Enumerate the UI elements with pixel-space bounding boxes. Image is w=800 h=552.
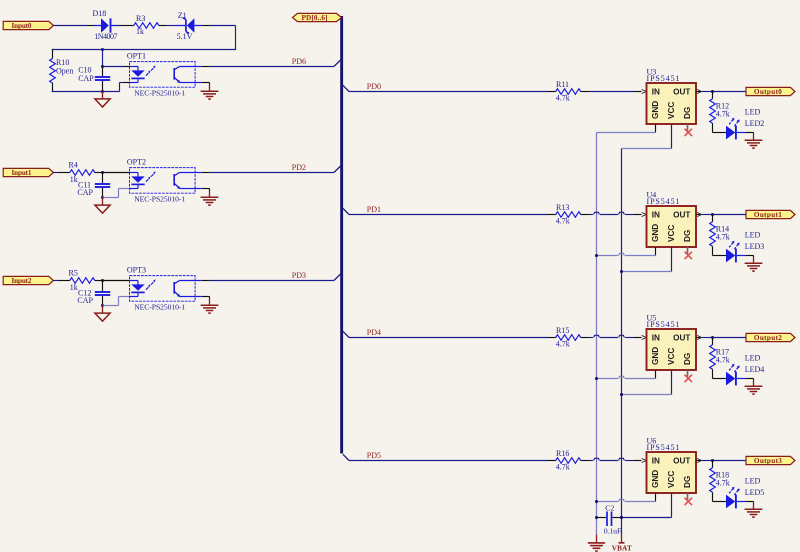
port Output2 <box>746 333 795 341</box>
svg-text:4.7k: 4.7k <box>716 233 730 242</box>
svg-text:OPT1: OPT1 <box>127 52 146 61</box>
no connect X on U5 DG <box>687 370 689 377</box>
wire U6 OUT to junction <box>696 460 700 462</box>
wire U3 VCC pin <box>671 124 673 149</box>
LED LED3 <box>713 241 754 263</box>
svg-text:LED5: LED5 <box>745 488 765 497</box>
LED LED4 <box>713 364 754 386</box>
resistor R5 1k <box>70 278 95 284</box>
junction C12 bottom <box>101 304 104 307</box>
svg-text:VCC: VCC <box>667 348 676 365</box>
svg-text:IPS5451: IPS5451 <box>647 197 680 206</box>
diode D18 1N4007 <box>94 18 119 32</box>
wire U6 GND pin <box>655 493 657 502</box>
svg-text:4.7k: 4.7k <box>716 356 730 365</box>
wire bus to R13 (PD1) <box>349 214 548 216</box>
svg-text:PD[0..6]: PD[0..6] <box>302 14 328 22</box>
port Input0 <box>3 21 53 29</box>
svg-text:4.7k: 4.7k <box>716 479 730 488</box>
svg-text:Input1: Input1 <box>12 169 32 177</box>
junction U6 OUT <box>711 459 714 462</box>
wire R5 to junction <box>95 280 103 282</box>
svg-text:Input2: Input2 <box>12 277 32 285</box>
optocoupler OPT1 NEC-PS25010-1 <box>130 62 196 88</box>
junction C11 bottom <box>101 196 104 199</box>
wire R3 to Z1 <box>159 25 166 27</box>
svg-text:OUT: OUT <box>673 457 690 466</box>
ground LED4 <box>753 379 755 381</box>
svg-text:NEC-PS25010-1: NEC-PS25010-1 <box>134 302 185 311</box>
resistor R3 <box>134 23 159 29</box>
svg-text:LED: LED <box>745 231 761 240</box>
wire U5 GND pin <box>655 370 657 379</box>
pin arrow U3 IN <box>642 89 646 93</box>
resistor R14 4.7k <box>712 215 714 222</box>
svg-text:Output3: Output3 <box>754 457 782 465</box>
wire junction to OPT3 anode <box>103 280 130 282</box>
wire OPT1 emitter to ground <box>195 82 202 84</box>
svg-text:DG: DG <box>683 353 692 365</box>
svg-text:IPS5451: IPS5451 <box>647 443 680 452</box>
svg-text:DG: DG <box>683 107 692 119</box>
wire R13 to U4 IN <box>581 214 590 216</box>
bus stub PD2 <box>334 166 341 173</box>
wire to OPT1 anode <box>103 66 124 68</box>
IC U5 IPS5451 <box>647 329 697 370</box>
svg-text:OUT: OUT <box>673 211 690 220</box>
bus stub PD3 <box>334 274 341 281</box>
bus stub PD6 <box>334 60 341 67</box>
svg-text:LED3: LED3 <box>745 242 765 251</box>
wire R16 to U6 IN <box>581 460 590 462</box>
no connect X on U6 DG <box>687 493 689 500</box>
svg-text:R13: R13 <box>556 203 569 212</box>
ground LED5 <box>753 502 755 504</box>
resistor R10 (Open) <box>52 50 54 59</box>
wire VBAT rail vertical <box>621 149 623 535</box>
svg-text:R15: R15 <box>556 326 569 335</box>
wire U5 OUT to junction <box>696 337 700 339</box>
resistor R15 4.7k <box>556 335 581 341</box>
net label tag PD[0..6] <box>293 13 342 21</box>
resistor R16 4.7k <box>556 458 581 464</box>
capacitor C2 0.1uF <box>597 517 607 519</box>
wire junction to Output1 <box>713 214 746 216</box>
wire OPT2 cathode return <box>119 188 130 190</box>
ground triangle C11 <box>102 198 104 206</box>
svg-text:GND: GND <box>651 347 660 365</box>
wire opto cathode return <box>119 83 121 92</box>
svg-text:DG: DG <box>683 476 692 488</box>
junction U5 OUT <box>711 336 714 339</box>
wire OPT1 collector to bus PD6 <box>195 66 202 68</box>
svg-text:VCC: VCC <box>667 102 676 119</box>
pin arrow U5 IN <box>642 335 646 339</box>
svg-text:1k: 1k <box>70 175 78 184</box>
resistor R18 4.7k <box>712 461 714 468</box>
svg-text:4.7k: 4.7k <box>556 339 570 348</box>
wire junction to Output2 <box>713 337 746 339</box>
capacitor C10 CAP <box>102 67 104 77</box>
svg-text:R16: R16 <box>556 449 569 458</box>
junction bottom rail <box>101 90 104 93</box>
port Output3 <box>746 456 795 464</box>
ground GND rail <box>588 542 605 544</box>
svg-text:IN: IN <box>652 211 660 220</box>
ground LED2 <box>753 133 755 135</box>
svg-text:4.7k: 4.7k <box>716 110 730 119</box>
wire junction to Output0 <box>713 91 746 93</box>
wire U5 VCC pin <box>671 370 673 395</box>
svg-text:IN: IN <box>652 457 660 466</box>
svg-text:IPS5451: IPS5451 <box>647 320 680 329</box>
wire D18 to R3 <box>119 25 134 27</box>
wire Input2 to R5 <box>53 280 58 282</box>
junction VBAT rail U5 <box>620 393 623 396</box>
pin arrow U6 IN <box>642 458 646 462</box>
wire junction to Output3 <box>713 460 746 462</box>
svg-text:VBAT: VBAT <box>612 544 632 552</box>
port Output1 <box>746 210 795 218</box>
svg-text:R3: R3 <box>136 14 145 23</box>
no connect X on U3 DG <box>687 124 689 131</box>
svg-text:CAP: CAP <box>77 188 93 197</box>
svg-text:R5: R5 <box>69 269 78 278</box>
wire U3 GND pin <box>655 124 657 133</box>
svg-text:PD6: PD6 <box>292 57 306 66</box>
wire OPT3 cathode return <box>119 296 130 298</box>
capacitor C12 CAP <box>102 281 104 292</box>
svg-text:Open: Open <box>56 66 73 75</box>
wire Z1 to corner <box>201 25 209 27</box>
junction VBAT rail U4 <box>620 270 623 273</box>
svg-text:OUT: OUT <box>673 334 690 343</box>
svg-text:GND: GND <box>651 224 660 242</box>
wire bus to R16 (PD5) <box>349 460 548 462</box>
svg-text:Input0: Input0 <box>12 22 32 30</box>
svg-text:4.7k: 4.7k <box>556 216 570 225</box>
svg-text:IN: IN <box>652 88 660 97</box>
wire R4 to junction <box>95 172 103 174</box>
wire C10 column upper <box>102 50 104 67</box>
wire Input0 to D18 <box>53 25 87 27</box>
port Input1 <box>3 168 53 176</box>
power port VBAT <box>621 535 623 543</box>
svg-text:PD4: PD4 <box>367 328 381 337</box>
IC U6 IPS5451 <box>647 452 697 493</box>
wire bottom rail <box>52 91 120 93</box>
no connect X on U4 DG <box>687 247 689 254</box>
bus stub PD1 <box>343 208 349 214</box>
svg-text:NEC-PS25010-1: NEC-PS25010-1 <box>134 194 185 203</box>
wire top rail <box>52 49 236 51</box>
resistor R17 4.7k <box>712 338 714 345</box>
wire Input1 to R4 <box>53 172 58 174</box>
wire U4 OUT to junction <box>696 214 700 216</box>
junction C12 top <box>101 279 104 282</box>
resistor R13 4.7k <box>556 212 581 218</box>
svg-text:OPT3: OPT3 <box>127 266 146 275</box>
ground OPT1 emitter <box>201 90 219 92</box>
wire bus to R11 (PD0) <box>349 91 548 93</box>
svg-text:PD3: PD3 <box>292 271 306 280</box>
svg-text:PD5: PD5 <box>367 451 381 460</box>
optocoupler OPT2 NEC-PS25010-1 <box>130 168 196 194</box>
pin arrow U4 IN <box>642 212 646 216</box>
resistor R11 4.7k <box>556 89 581 95</box>
svg-text:R4: R4 <box>69 161 78 170</box>
junction on top rail <box>101 48 104 51</box>
resistor R4 1k <box>70 170 95 176</box>
svg-text:CAP: CAP <box>77 296 93 305</box>
ground OPT2 emitter <box>201 196 219 198</box>
wire R15 to U5 IN <box>581 337 590 339</box>
wire U6 VCC pin <box>671 493 673 518</box>
svg-text:1k: 1k <box>136 27 144 36</box>
wire bus to R15 (PD4) <box>349 337 548 339</box>
svg-text:LED2: LED2 <box>745 119 765 128</box>
wire R11 to U3 IN <box>581 91 590 93</box>
svg-text:LED: LED <box>745 477 761 486</box>
LED LED5 <box>713 487 754 509</box>
wire OPT3 emitter to ground <box>195 296 202 298</box>
svg-text:0.1uF: 0.1uF <box>604 527 622 536</box>
wire junction to OPT2 anode <box>103 172 130 174</box>
svg-text:NEC-PS25010-1: NEC-PS25010-1 <box>134 88 185 97</box>
svg-text:LED: LED <box>745 354 761 363</box>
wire right corner down <box>235 26 237 50</box>
svg-text:4.7k: 4.7k <box>556 93 570 102</box>
wire OPT2 collector to bus PD2 <box>195 172 202 174</box>
svg-text:5.1V: 5.1V <box>177 32 193 41</box>
svg-text:OUT: OUT <box>673 88 690 97</box>
ground triangle row0 <box>102 92 104 99</box>
wire OPT2 emitter to ground <box>195 188 202 190</box>
wire OPT3 collector to bus PD3 <box>195 280 202 282</box>
junction C11 top <box>101 171 104 174</box>
svg-text:Z1: Z1 <box>178 11 187 20</box>
wire U4 GND pin <box>655 247 657 256</box>
svg-text:LED: LED <box>745 108 761 117</box>
svg-text:D18: D18 <box>93 9 107 18</box>
junction GND rail U5 <box>595 377 598 380</box>
junction GND rail C2 <box>595 516 598 519</box>
svg-text:PD2: PD2 <box>292 163 306 172</box>
svg-text:VCC: VCC <box>667 471 676 488</box>
IC U4 IPS5451 <box>647 206 697 247</box>
junction opto branch <box>101 65 104 68</box>
junction GND rail U4 <box>595 254 598 257</box>
bus stub PD5 <box>343 454 349 460</box>
junction VBAT rail U6 <box>620 516 623 519</box>
svg-text:PD0: PD0 <box>367 82 381 91</box>
ground triangle C12 <box>102 306 104 314</box>
svg-text:1k: 1k <box>70 283 78 292</box>
LED LED2 <box>713 118 754 140</box>
svg-text:Output0: Output0 <box>754 88 782 96</box>
svg-text:VCC: VCC <box>667 225 676 242</box>
port Input2 <box>3 276 53 284</box>
junction GND rail U6 <box>595 500 598 503</box>
ground OPT3 emitter <box>201 304 219 306</box>
bus PD[0..6] <box>340 16 343 454</box>
svg-text:LED4: LED4 <box>745 365 765 374</box>
junction U4 OUT <box>711 213 714 216</box>
junction U3 OUT <box>711 90 714 93</box>
svg-text:PD1: PD1 <box>367 205 381 214</box>
svg-text:Output2: Output2 <box>754 334 782 342</box>
bus stub PD0 <box>343 85 349 91</box>
resistor R12 4.7k <box>712 92 714 99</box>
capacitor C11 CAP <box>102 173 104 184</box>
svg-text:4.7k: 4.7k <box>556 462 570 471</box>
wire U4 VCC pin <box>671 247 673 272</box>
svg-text:GND: GND <box>651 470 660 488</box>
svg-text:IN: IN <box>652 334 660 343</box>
svg-text:OPT2: OPT2 <box>127 158 146 167</box>
svg-text:CAP: CAP <box>78 74 94 83</box>
zener diode Z1 5.1V <box>176 18 201 33</box>
svg-text:1N4007: 1N4007 <box>94 32 117 41</box>
ground LED3 <box>753 256 755 258</box>
svg-text:C2: C2 <box>605 503 614 512</box>
port Output0 <box>746 87 795 95</box>
svg-text:Output1: Output1 <box>754 211 782 219</box>
wire U3 OUT to junction <box>696 91 700 93</box>
svg-text:IPS5451: IPS5451 <box>647 74 680 83</box>
svg-text:R11: R11 <box>556 80 569 89</box>
junction VBAT rail C2 <box>620 516 623 519</box>
svg-text:DG: DG <box>683 230 692 242</box>
bus stub PD4 <box>343 331 349 337</box>
IC U3 IPS5451 <box>647 83 697 124</box>
svg-text:GND: GND <box>651 101 660 119</box>
wire GND rail vertical <box>596 133 598 535</box>
optocoupler OPT3 NEC-PS25010-1 <box>130 276 196 302</box>
